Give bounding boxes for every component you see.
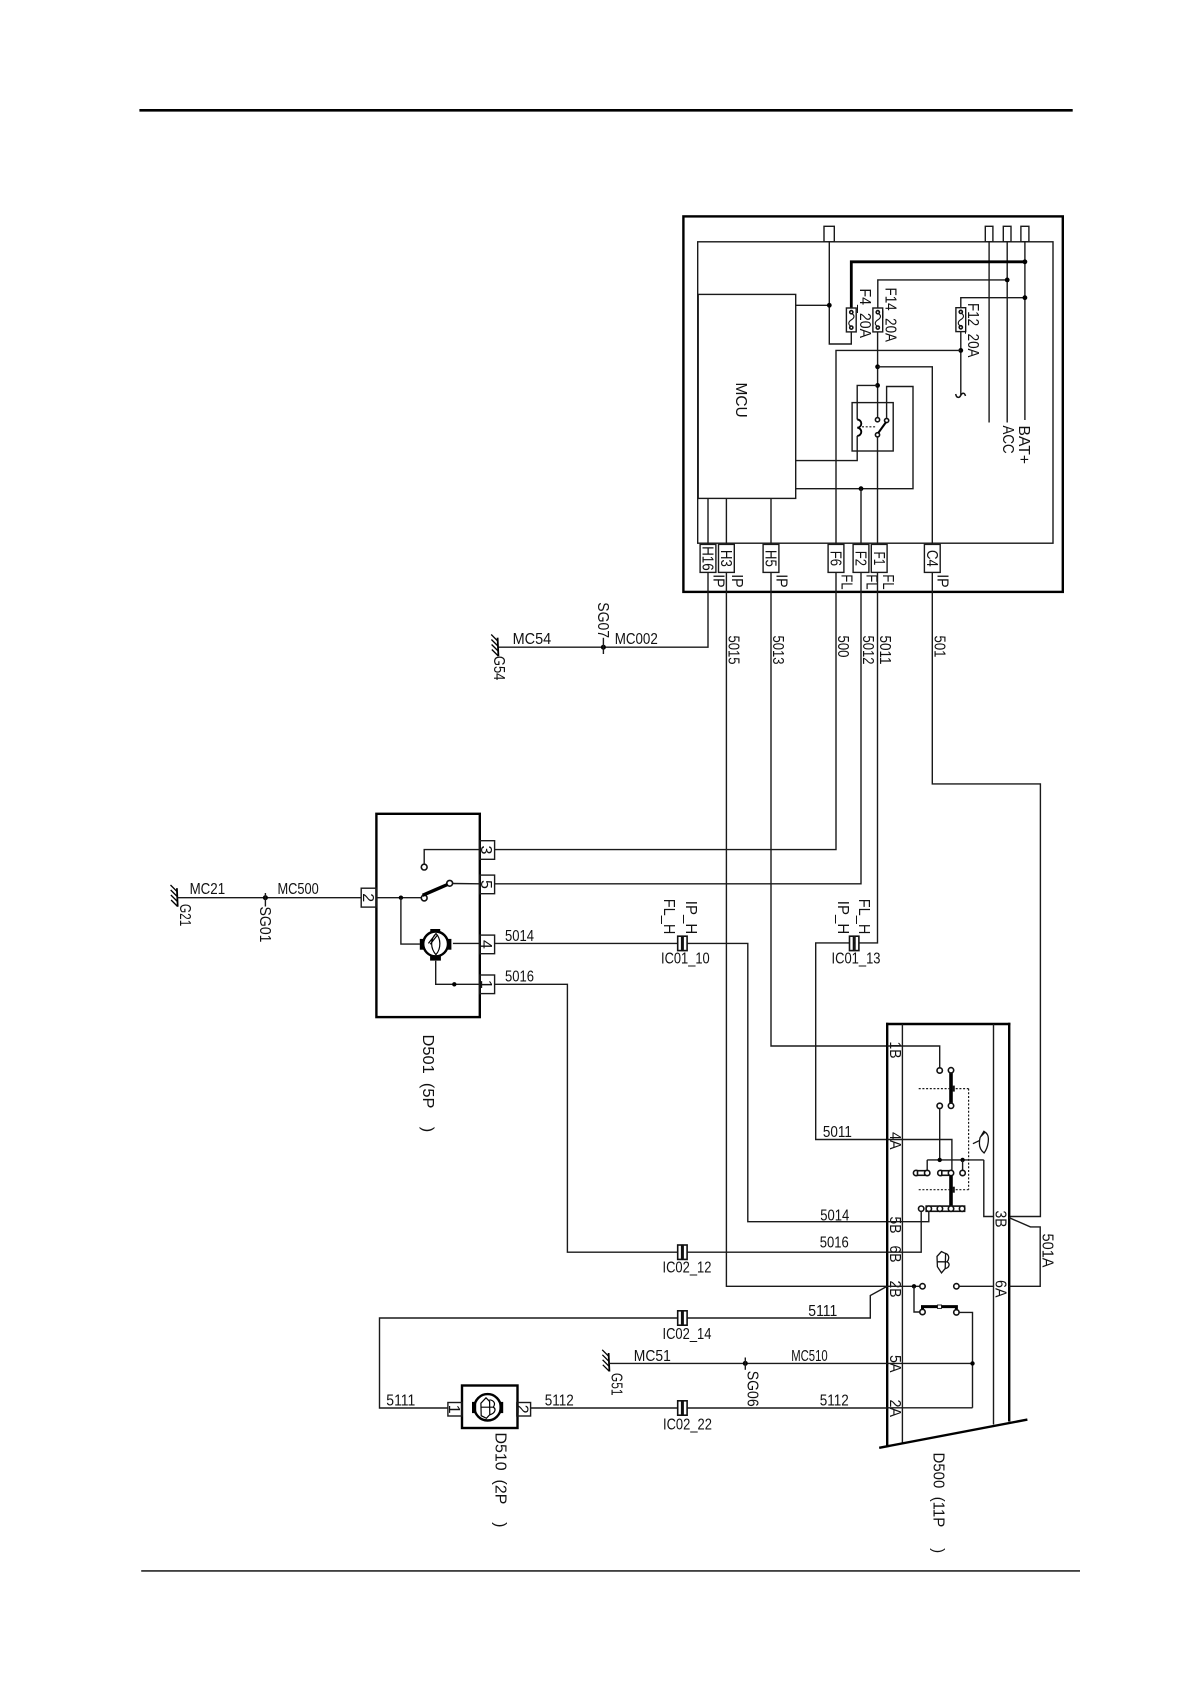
mirror glyph lower bbox=[937, 1252, 949, 1273]
pin box F2 bbox=[853, 544, 869, 572]
D500 slanted bottom edge bbox=[879, 1420, 1027, 1448]
wire pin2 into switch common bbox=[376, 897, 421, 899]
junction dot 5A riser bbox=[970, 1361, 974, 1365]
svg-text:5014: 5014 bbox=[505, 928, 534, 945]
svg-text:H3: H3 bbox=[717, 550, 734, 567]
svg-text:SG07: SG07 bbox=[594, 602, 611, 638]
svg-text:F6: F6 bbox=[827, 551, 844, 566]
switch contact 1B upper bbox=[937, 1068, 942, 1073]
wire 2A internal bbox=[887, 1407, 972, 1409]
svg-text:FL_H: FL_H bbox=[660, 899, 677, 935]
mid contact c bbox=[948, 1170, 953, 1175]
pin box F1 bbox=[871, 544, 887, 572]
mirror glyph upper bbox=[973, 1131, 989, 1153]
svg-text:5012: 5012 bbox=[859, 636, 876, 665]
tab T1 bbox=[985, 226, 993, 242]
svg-text:501A: 501A bbox=[1038, 1234, 1055, 1268]
lower blade D500 bbox=[949, 1176, 953, 1206]
svg-text:5015: 5015 bbox=[725, 636, 742, 665]
D500 left edge bbox=[886, 1023, 888, 1446]
relay linkage dashed bbox=[862, 426, 876, 428]
svg-text:G54: G54 bbox=[490, 656, 507, 681]
tab T0 bbox=[824, 226, 834, 242]
pin box 2 of D501 bbox=[361, 888, 376, 907]
svg-text:MCU: MCU bbox=[732, 383, 749, 418]
svg-text:500: 500 bbox=[834, 636, 851, 658]
D510 body bbox=[462, 1386, 518, 1429]
mid contact a bbox=[925, 1170, 930, 1175]
inline connector IC02_22 bbox=[678, 1401, 687, 1415]
wire branch to relay coil top bbox=[857, 385, 877, 419]
dashed linkage upper bbox=[919, 1088, 969, 1090]
junction box inner border bbox=[698, 242, 1053, 543]
junction dot SG01 bbox=[263, 895, 268, 900]
svg-text:IC02_22: IC02_22 bbox=[663, 1417, 712, 1434]
pin box H3 bbox=[719, 544, 735, 572]
MCU block bbox=[698, 294, 796, 498]
svg-text:F4_20A: F4_20A bbox=[856, 289, 873, 339]
svg-text:F12_20A: F12_20A bbox=[964, 303, 981, 358]
junction dot row right bbox=[960, 1158, 964, 1162]
relay contact common bbox=[875, 433, 879, 437]
bottom contact m3 bbox=[959, 1206, 964, 1211]
junction dot F12 output / F6 branch bbox=[958, 348, 963, 353]
wire junction row to 3B bbox=[984, 1160, 994, 1217]
wire contact upper to pin3 bbox=[424, 850, 480, 865]
wire line C BAT+ feed from tab T3 bbox=[1024, 242, 1026, 420]
wire MCU pin to H3 bbox=[725, 498, 727, 544]
wire MCU to tab T0 riser bbox=[796, 304, 830, 306]
switch blade D501 bbox=[423, 885, 448, 896]
junction row wire bbox=[927, 1159, 984, 1161]
junction dot F14 output / coil branch bbox=[875, 383, 880, 388]
junction dot SG06 bbox=[743, 1361, 748, 1366]
svg-text:MC21: MC21 bbox=[190, 881, 226, 898]
bottom contact 5B bbox=[926, 1206, 931, 1211]
relay coil bbox=[857, 420, 861, 436]
wire 501 C4 to D500 3B bbox=[932, 572, 1040, 1216]
svg-text:5B: 5B bbox=[886, 1217, 903, 1234]
bottom contact m2 bbox=[948, 1206, 953, 1211]
wire F12 top to line C bbox=[961, 298, 1025, 308]
wire lower-left contact to junction row bbox=[939, 1109, 941, 1160]
inline connector IC02_12 bbox=[678, 1245, 687, 1259]
bridge bar 2B-6A bbox=[923, 1307, 957, 1310]
wire 5015 H3 to D500 2B bbox=[726, 572, 887, 1286]
svg-text:501: 501 bbox=[931, 636, 948, 658]
svg-text:BAT+: BAT+ bbox=[1015, 426, 1032, 465]
switch contact pin5 D501 bbox=[447, 880, 453, 886]
wire 6A contact to 5A/2A riser bbox=[959, 1312, 972, 1407]
svg-text:6A: 6A bbox=[992, 1280, 1009, 1298]
svg-text:FL: FL bbox=[837, 574, 854, 589]
svg-text:C4: C4 bbox=[923, 550, 940, 567]
D500 top edge bbox=[886, 1023, 1010, 1025]
pin box C4 bbox=[924, 544, 940, 572]
wire motor to pin4 bbox=[453, 942, 480, 944]
dashed linkage lower bbox=[919, 1189, 969, 1191]
pin box F6 bbox=[828, 544, 844, 572]
switch contact upper D501 bbox=[421, 864, 427, 870]
pin box 1 of D510 bbox=[448, 1403, 462, 1417]
junction dot F14 feed / line B bbox=[1005, 278, 1010, 283]
wire MC21/MC500 ground run to D501 pin2 bbox=[178, 897, 362, 899]
wire F14 top to line B bbox=[878, 280, 1007, 308]
wire 5016 pin1 to D500 6B bbox=[495, 984, 888, 1252]
D501 body bbox=[376, 814, 479, 1017]
relay contact NO bbox=[875, 418, 879, 422]
svg-text:5013: 5013 bbox=[769, 636, 786, 665]
svg-text:MC002: MC002 bbox=[615, 631, 658, 648]
wire contact to pin5 bbox=[453, 883, 480, 885]
svg-text:IP: IP bbox=[772, 574, 789, 588]
mid bridge bar 1 bbox=[918, 1171, 927, 1176]
svg-text:IP_H: IP_H bbox=[682, 901, 699, 935]
junction dot at pin1 bbox=[452, 982, 456, 986]
upper blade D500 bbox=[949, 1072, 953, 1105]
ground G54 bbox=[491, 635, 498, 657]
contact 2B bbox=[920, 1284, 925, 1289]
riser to contact d bbox=[962, 1160, 964, 1171]
wire 501A from 3B to 6A bbox=[1009, 1218, 1040, 1287]
svg-text:IC02_14: IC02_14 bbox=[663, 1326, 712, 1343]
wire 5B internal bbox=[887, 1211, 929, 1221]
thick battery feed wire bbox=[851, 262, 1025, 308]
wire 2B junction to bridge bbox=[914, 1286, 920, 1312]
mid contact row: contact 0 bbox=[913, 1170, 918, 1175]
wire line B ACC feed from tab T2 bbox=[1006, 242, 1008, 423]
junction dot F14 output / C4 branch bbox=[875, 364, 880, 369]
wire 2B internal bbox=[887, 1285, 920, 1287]
leader tick SG07 bbox=[602, 638, 604, 654]
wire MC51/MC510 ground run to D500 5A bbox=[609, 1362, 887, 1364]
pin box 2 of D510 bbox=[517, 1403, 531, 1417]
svg-text:5111: 5111 bbox=[808, 1303, 837, 1320]
junction dot row left bbox=[938, 1158, 942, 1162]
svg-text:ACC: ACC bbox=[999, 426, 1016, 454]
svg-text:H16: H16 bbox=[699, 546, 716, 571]
svg-text:IP: IP bbox=[728, 574, 745, 588]
pin box 1 of D501 bbox=[480, 975, 495, 994]
svg-text:5016: 5016 bbox=[505, 969, 534, 986]
D500 right edge bbox=[1008, 1023, 1010, 1422]
switch contact lower left bbox=[937, 1103, 942, 1108]
wire MCU pin to H16 bbox=[707, 498, 709, 544]
mid bridge bar 2 bbox=[942, 1171, 950, 1176]
pin box 4 of D501 bbox=[480, 935, 495, 954]
top rule bbox=[139, 109, 1072, 112]
svg-text:IC01_10: IC01_10 bbox=[661, 951, 710, 968]
wire line A from tab T1 bbox=[988, 242, 990, 423]
wire 5A internal bbox=[887, 1362, 972, 1364]
leader tick SG01 bbox=[264, 893, 266, 907]
svg-text:F1: F1 bbox=[870, 551, 887, 565]
wire F14 output down to relay bbox=[877, 332, 879, 419]
upper blade bottom contact bbox=[948, 1103, 953, 1108]
bottom contact 6B bbox=[919, 1206, 924, 1211]
wire 5111 D500 2B to D510 pin1 bbox=[380, 1286, 888, 1408]
junction dot battery feed / line C bbox=[1023, 259, 1028, 264]
bridge contact left bbox=[920, 1309, 925, 1314]
svg-text:F2: F2 bbox=[852, 551, 869, 566]
svg-text:F14_20A: F14_20A bbox=[882, 288, 899, 343]
svg-text:H5: H5 bbox=[762, 550, 779, 567]
junction dot pin2 / motor branch bbox=[399, 896, 403, 900]
pin box 3 of D501 bbox=[480, 841, 495, 860]
svg-text:G51: G51 bbox=[608, 1373, 625, 1396]
svg-text:5014: 5014 bbox=[820, 1207, 849, 1224]
junction dot SG07 bbox=[601, 645, 606, 650]
svg-text:D500 (11P ): D500 (11P ) bbox=[929, 1453, 946, 1554]
svg-text:MC500: MC500 bbox=[278, 881, 319, 898]
riser to contact a bbox=[926, 1160, 928, 1171]
pin box H16 bbox=[700, 544, 716, 572]
motor M of D510 bbox=[472, 1394, 503, 1420]
junction dot NC wire / F2 branch bbox=[859, 486, 864, 491]
svg-text:5011: 5011 bbox=[876, 636, 893, 665]
junction dot F12 feed / line C bbox=[1023, 295, 1028, 300]
svg-text:FL_H: FL_H bbox=[855, 899, 872, 935]
wire F12 bottom to junction bbox=[960, 332, 962, 395]
svg-text:MC510: MC510 bbox=[791, 1348, 828, 1365]
wire 1B internal to switch bbox=[887, 1046, 940, 1068]
blade tick D501 bbox=[435, 894, 437, 897]
inline connector IC01_13 bbox=[850, 936, 859, 950]
switch contact common D501 bbox=[421, 895, 427, 901]
junction dot tab riser / MCU wire bbox=[827, 303, 832, 308]
dashed linkage vertical bbox=[968, 1089, 970, 1190]
svg-text:IP: IP bbox=[709, 574, 726, 588]
svg-text:IP: IP bbox=[934, 574, 951, 588]
pin box H5 bbox=[763, 544, 779, 572]
wire relay NC to MCU and F2 bbox=[796, 387, 913, 489]
wire branch F12 junction to F6 pin bbox=[836, 350, 961, 544]
fuse F12_20A bbox=[956, 308, 966, 332]
tab T3 bbox=[1021, 226, 1029, 242]
D500 inner right line bbox=[993, 1024, 995, 1425]
svg-text:6B: 6B bbox=[886, 1246, 903, 1263]
fuse F4_20A bbox=[846, 308, 856, 332]
wire 5012 F2 to D501 pin5 bbox=[495, 572, 861, 883]
svg-text:5016: 5016 bbox=[820, 1234, 849, 1251]
wire MC002/MC54 ground run from H16 bbox=[498, 572, 708, 647]
svg-text:G21: G21 bbox=[176, 904, 193, 926]
ground G21 bbox=[171, 885, 178, 907]
mid contact d bbox=[960, 1170, 965, 1175]
svg-text:5112: 5112 bbox=[820, 1392, 849, 1409]
pin box 5 of D501 bbox=[480, 875, 495, 894]
svg-text:SG06: SG06 bbox=[744, 1371, 761, 1407]
contact 6A bbox=[954, 1284, 959, 1289]
wire tab T0 to F4 bottom bbox=[829, 242, 851, 344]
bottom rule bbox=[141, 1570, 1080, 1572]
inline connector IC01_10 bbox=[678, 936, 687, 950]
svg-text:4: 4 bbox=[477, 940, 494, 949]
svg-text:FL: FL bbox=[879, 574, 896, 589]
D500 inner left line bbox=[901, 1024, 903, 1443]
wire 5011 F1 through IC01_13 to D500 4A bbox=[816, 572, 888, 1139]
upper blade top contact bbox=[948, 1068, 953, 1073]
svg-text:5111: 5111 bbox=[386, 1392, 415, 1409]
svg-text:MC51: MC51 bbox=[634, 1348, 671, 1365]
svg-text:IC02_12: IC02_12 bbox=[663, 1260, 712, 1277]
svg-text:1: 1 bbox=[445, 1405, 462, 1414]
fuse F14_20A bbox=[873, 308, 883, 332]
svg-text:2: 2 bbox=[514, 1405, 531, 1414]
svg-text:SG01: SG01 bbox=[256, 907, 273, 943]
linkage tab upper bbox=[952, 1086, 955, 1092]
svg-text:D510 (2P ): D510 (2P ) bbox=[492, 1433, 509, 1528]
bridge bar notch bbox=[938, 1305, 942, 1308]
break squiggle below F12 branch bbox=[956, 393, 966, 397]
wire 5112 D510 pin2 to D500 2A bbox=[531, 1407, 888, 1409]
svg-text:1B: 1B bbox=[886, 1042, 903, 1059]
motor M of D501 bbox=[420, 929, 452, 961]
junction dot 2B bbox=[912, 1284, 916, 1288]
inline connector IC02_14 bbox=[678, 1311, 687, 1325]
svg-text:5112: 5112 bbox=[545, 1392, 574, 1409]
leader tick SG06 bbox=[744, 1358, 746, 1370]
wire 5013 H5 to D500 1B bbox=[771, 572, 887, 1046]
wire branch to C4 pin bbox=[878, 367, 933, 545]
relay K box bbox=[852, 403, 893, 451]
wire contact to 6A bbox=[959, 1285, 993, 1287]
svg-text:IP_H: IP_H bbox=[834, 901, 851, 935]
mid contact b bbox=[938, 1170, 943, 1175]
svg-text:3B: 3B bbox=[992, 1211, 1009, 1228]
bridge contact right bbox=[954, 1310, 959, 1315]
wire 6B internal bbox=[887, 1211, 921, 1252]
bottom contact row bar bbox=[926, 1206, 964, 1211]
bottom contact m1 bbox=[937, 1206, 942, 1211]
wire 4A internal bbox=[887, 1140, 952, 1171]
wire 500 F6 to D501 pin3 bbox=[495, 572, 836, 849]
wire relay common to F1 pin bbox=[877, 437, 879, 545]
svg-text:2B: 2B bbox=[886, 1281, 903, 1298]
wire motor feed from pin2 junction bbox=[401, 898, 420, 944]
wire 5014 pin4 to D500 5B bbox=[495, 943, 888, 1221]
linkage tab lower bbox=[952, 1187, 955, 1193]
wire branch to F2 pin bbox=[860, 489, 862, 545]
wire motor bottom to pin1 bbox=[436, 961, 480, 985]
wire MCU pin to H5 bbox=[770, 498, 772, 544]
svg-text:D501 (5P ): D501 (5P ) bbox=[419, 1035, 436, 1133]
ground G51 bbox=[602, 1350, 609, 1372]
relay contact NC bbox=[885, 418, 889, 422]
svg-text:2: 2 bbox=[359, 893, 376, 902]
svg-text:5011: 5011 bbox=[823, 1124, 852, 1141]
tab T2 bbox=[1003, 226, 1011, 242]
relay blade bbox=[878, 422, 886, 433]
svg-text:IC01_13: IC01_13 bbox=[832, 951, 881, 968]
svg-text:MC54: MC54 bbox=[513, 631, 552, 648]
wire relay coil bottom to MCU bbox=[796, 436, 858, 461]
junction box outer border bbox=[683, 216, 1062, 592]
svg-text:4A: 4A bbox=[886, 1132, 903, 1150]
